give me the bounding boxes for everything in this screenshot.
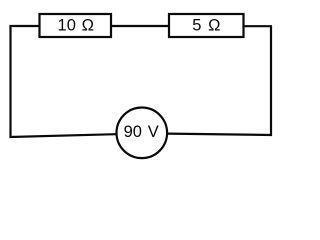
voltage source V1 circle <box>117 108 168 159</box>
resistor R2 box <box>169 14 244 37</box>
resistor R1 box <box>40 14 112 37</box>
svg-text:5 Ω: 5 Ω <box>192 16 221 34</box>
svg-text:90 V: 90 V <box>124 123 159 141</box>
wire: left loop (top-left, left side, bottom-left to battery) <box>11 26 116 137</box>
svg-text:10 Ω: 10 Ω <box>58 16 94 34</box>
wire: right loop (top-right, right side, bottom-right to battery) <box>168 26 271 135</box>
wire: middle segment between resistors <box>111 25 169 27</box>
